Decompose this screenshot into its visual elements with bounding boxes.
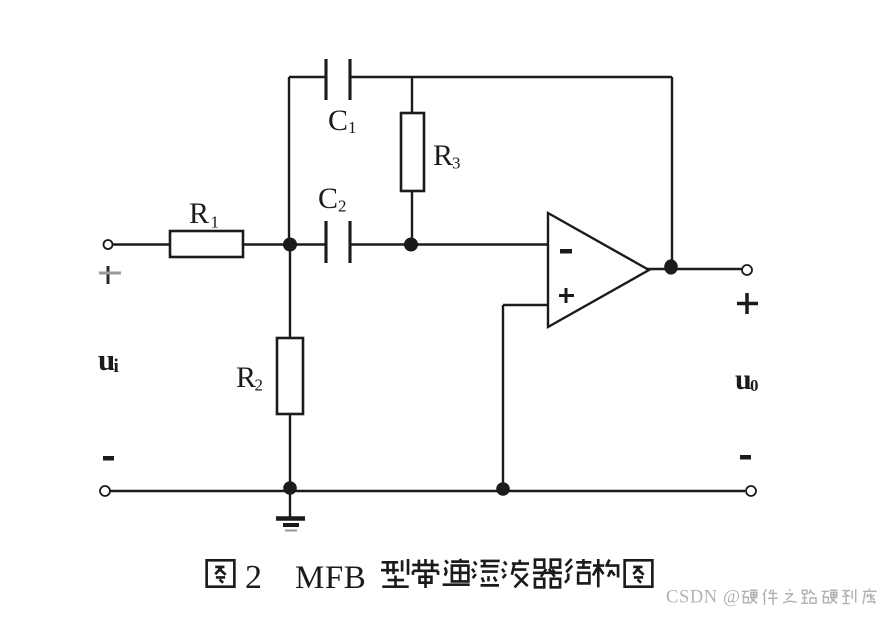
svg-text:3: 3 [452,154,461,173]
svg-text:R: R [236,361,256,394]
watermark CSDN credit [666,588,741,608]
op-amp inverting input minus sign [560,249,572,254]
svg-text:C: C [328,104,348,137]
svg-text:MFB: MFB [295,560,366,596]
wire: R3 bottom connection [411,191,413,245]
caption: figure title 图2 MFB 型带通滤波器结构图 [207,560,235,586]
terminal: input port circle [104,240,113,249]
wire: right vertical feedback [671,77,673,268]
svg-text:R: R [189,197,209,230]
label C1 [328,104,357,137]
label R1 [189,197,219,232]
svg-text:CSDN @: CSDN @ [666,588,741,608]
op-amp non-inverting input plus sign [559,288,574,303]
terminal: bottom-left port circle [100,486,110,496]
capacitor C1 plates [326,59,350,100]
wire: op-amp output [646,268,742,270]
wire: top feedback rail left segment [289,76,326,78]
wire: bottom ground rail [110,490,745,492]
node: output junction [664,259,678,274]
svg-text:1: 1 [211,213,220,232]
label minus sign at bottom-left [103,456,114,461]
label minus sign at bottom-right [740,455,751,460]
wire: R1 to C2 left plate [243,243,326,245]
terminal: output port circle [742,265,752,275]
capacitor C2 plates [326,221,350,263]
wire: R2 bottom to ground rail [289,414,291,491]
label plus sign at input [99,266,121,284]
node: junction of C2 R3 op-amp input [404,238,418,252]
node: non-inverting ground junction [496,482,510,496]
node: junction of R1 R2 C1 C2 [283,238,297,252]
wire: R3 top connection [411,77,413,113]
wire: input to R1 [113,243,170,245]
wire: left vertical from top rail to input node [288,77,290,245]
wire: top feedback rail right segment [351,76,672,78]
resistor R2 [277,338,303,414]
terminal: bottom-right port circle [746,486,756,496]
svg-text:C: C [318,182,338,215]
svg-text:2: 2 [245,559,262,596]
svg-text:2: 2 [338,197,347,216]
label plus sign at output [737,293,758,314]
label C2 [318,182,347,216]
resistor R1 [170,231,243,257]
label R2 [236,361,263,395]
node: R2 ground junction [283,481,297,495]
wire: node to R2 top [289,245,291,339]
wire: C2 right plate to op-amp inverting input [350,243,548,245]
wire: non-inverting input down to ground rail [502,305,504,491]
label uo [735,363,759,396]
svg-text:1: 1 [348,118,357,137]
svg-text:0: 0 [750,376,759,395]
svg-text:i: i [114,356,119,377]
resistor R3 [401,113,424,191]
label R3 [433,139,461,173]
label ui [98,342,119,377]
ground symbol [276,491,305,531]
svg-text:R: R [433,139,453,172]
svg-text:2: 2 [255,376,264,395]
op-amp U1 triangle [548,213,649,327]
wire: non-inverting input horizontal [503,304,548,306]
